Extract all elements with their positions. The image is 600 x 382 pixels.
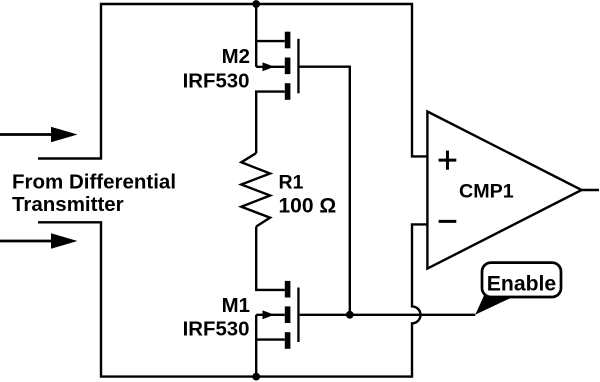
- svg-text:M1: M1: [222, 295, 250, 317]
- svg-text:R1: R1: [279, 172, 304, 194]
- svg-text:IRF530: IRF530: [183, 70, 250, 92]
- svg-text:Transmitter: Transmitter: [12, 193, 124, 216]
- svg-text:100 Ω: 100 Ω: [279, 194, 337, 217]
- svg-text:M2: M2: [222, 46, 250, 68]
- svg-text:From Differential: From Differential: [12, 171, 176, 194]
- svg-text:Enable: Enable: [487, 273, 557, 296]
- svg-text:CMP1: CMP1: [459, 180, 514, 202]
- svg-text:IRF530: IRF530: [183, 319, 250, 341]
